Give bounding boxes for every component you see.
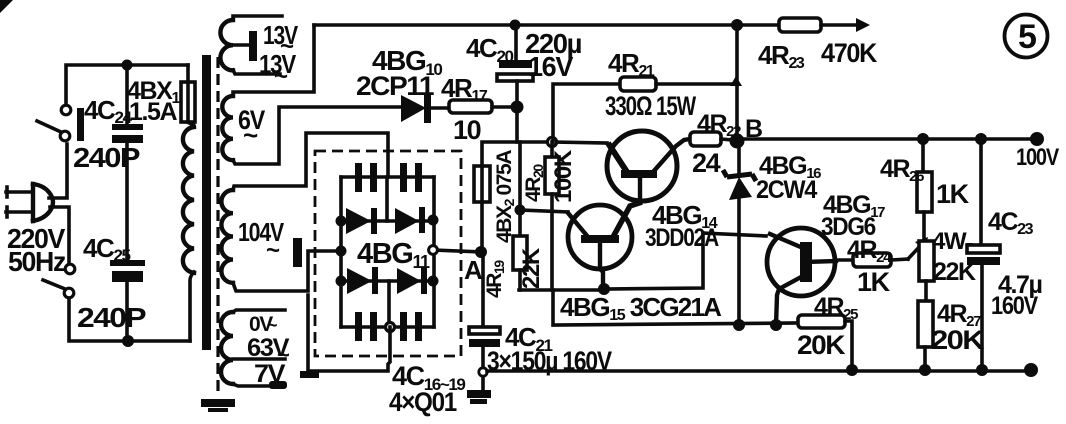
capacitor C17 [400, 163, 422, 192]
resistor R21 330ohm [553, 77, 737, 142]
svg-text:2CW4: 2CW4 [756, 176, 817, 204]
wire switch K1a to top wire [66, 65, 188, 105]
svg-text:22K: 22K [518, 247, 545, 289]
wire zener to BG17 collector and x703 [703, 233, 766, 236]
node B dot [730, 134, 745, 149]
potentiometer W5 [919, 241, 934, 281]
top rail [314, 23, 779, 27]
wire 0V tap [233, 310, 285, 312]
svg-text:10: 10 [453, 115, 481, 145]
diode D2 [395, 207, 425, 234]
resistor R25 [798, 315, 852, 370]
junction dots output rail [917, 133, 929, 145]
svg-text:330Ω 15W: 330Ω 15W [605, 91, 696, 121]
104V winding [221, 190, 233, 283]
diode D1 [346, 208, 377, 234]
svg-text:24: 24 [692, 148, 721, 178]
resistor R22 [690, 132, 733, 146]
wire y290 left [519, 288, 605, 292]
page number circled 5 [1005, 15, 1048, 58]
capacitor C19 [400, 312, 422, 341]
wire 7V tap [233, 381, 287, 389]
diode D3 [347, 267, 378, 294]
diode D4 [397, 267, 427, 294]
zener BG16 2CW4 [723, 141, 756, 326]
svg-text:1K: 1K [936, 179, 970, 209]
wire 104V top over-route to bridge top [233, 133, 388, 190]
diode BG10 2CP11 [401, 95, 449, 123]
ground symbol [467, 390, 491, 404]
capacitor C21 [469, 252, 500, 392]
capacitor C25 plates [110, 260, 145, 341]
transformer T primary winding [183, 122, 194, 273]
wire BG15 emitter to R19 dot [520, 210, 568, 212]
wire 63V tap [233, 357, 285, 361]
junction dots upper diode row [336, 216, 347, 227]
switch K1b [43, 264, 75, 298]
wire 6V top to top rail [233, 25, 314, 96]
transformer core dashed line [216, 57, 219, 396]
wire 104V bottom to bridge input [233, 251, 341, 291]
transformer core solid bar [202, 55, 211, 350]
svg-text:A: A [464, 255, 483, 285]
junction dots on y325 [733, 319, 745, 331]
bridge upper diode row wire [341, 219, 434, 223]
bridge dashed box [315, 151, 461, 356]
svg-text:2CP11: 2CP11 [356, 71, 434, 101]
13V winding [220, 20, 233, 70]
svg-text:4BG15 3CG21A: 4BG15 3CG21A [560, 292, 722, 324]
bridge right rail [432, 177, 436, 327]
mid vertical top [385, 177, 389, 221]
corner scan mark [0, 0, 13, 13]
wire switch K1b down to bottom left wire [69, 298, 190, 341]
capacitor C20 [497, 25, 533, 142]
svg-text:~: ~ [267, 315, 277, 335]
svg-text:~: ~ [274, 63, 288, 90]
transistor BG15 [568, 202, 642, 289]
svg-text:~: ~ [266, 237, 280, 264]
resistor R19 column [513, 142, 527, 290]
svg-text:240P: 240P [73, 142, 140, 173]
svg-text:16V: 16V [528, 51, 574, 82]
junction dots lower diode row [336, 276, 347, 287]
svg-text:~: ~ [243, 120, 258, 150]
output rail 100V [743, 137, 1037, 141]
AC plug P1 [6, 184, 53, 221]
junction circle bridge output [429, 246, 438, 255]
0V 6.3V 7V winding [221, 312, 233, 384]
svg-text:20K: 20K [797, 330, 846, 360]
capacitor C24 plates [112, 65, 143, 143]
svg-text:1K: 1K [857, 267, 891, 297]
junction dots bottom rail [846, 364, 858, 376]
bridge lower diode row wire [341, 279, 434, 283]
resistor R27 [918, 281, 933, 370]
bridge bottom cap row wire [341, 325, 434, 329]
wire 13V top stub [233, 16, 282, 20]
bridge ground route [300, 295, 390, 378]
resistor R17 [449, 100, 517, 113]
bridge top cap row wire [341, 175, 434, 179]
svg-text:100V: 100V [1016, 144, 1059, 171]
switch K1a [37, 105, 71, 141]
vertical x737 rail [735, 25, 739, 141]
junction dot bottom mid [386, 323, 395, 332]
junction dot 552,142 [547, 137, 556, 146]
13V center tap with terminal bar [233, 31, 257, 61]
svg-text:20K: 20K [931, 325, 985, 355]
capacitor C16 [355, 163, 377, 192]
svg-text:1.5A: 1.5A [129, 98, 178, 126]
core ground bar [201, 399, 235, 407]
small scan bar near switch [77, 108, 84, 141]
svg-text:4BX2 075A: 4BX2 075A [493, 150, 517, 243]
bottom rail [487, 369, 1031, 373]
svg-text:50Hz: 50Hz [8, 246, 65, 277]
wire y325 with R25 [553, 290, 798, 325]
svg-text:4×Q01: 4×Q01 [389, 387, 457, 417]
input terminal bar [293, 238, 302, 267]
svg-text:5: 5 [1018, 18, 1036, 56]
bridge left rail [339, 177, 343, 327]
wire 6V bottom to diode [233, 107, 403, 164]
svg-text:470K: 470K [821, 38, 878, 68]
resistor R24 [836, 237, 928, 267]
top rail resistor R23 [779, 18, 870, 32]
transistor BG17 [767, 228, 836, 326]
bridge output wire to node A [434, 250, 482, 252]
resistor R26 [917, 139, 932, 241]
junction dot C20 top [510, 20, 521, 31]
wire 13V bottom stub [233, 70, 280, 74]
junction dot bridge input [336, 246, 347, 257]
wire primary bottom [190, 272, 194, 341]
capacitor C23 [967, 139, 1000, 370]
svg-text:~: ~ [271, 370, 284, 395]
svg-text:240P: 240P [77, 302, 146, 333]
wire plug to switch K1a [49, 144, 67, 198]
svg-text:100K: 100K [550, 149, 577, 203]
junction dot [122, 60, 133, 71]
junction dot top rail x737 [731, 19, 743, 31]
fuse BX1 [181, 65, 195, 122]
wire x703 vertical [605, 233, 703, 289]
capacitor C18 [355, 312, 377, 341]
fuse BX2 on node A column [474, 142, 553, 252]
6V winding [222, 96, 233, 160]
junction triangle at right of R21 [730, 76, 742, 86]
wire C24 to C25 [125, 143, 129, 262]
wire raw rail to BG14 emitter [553, 142, 607, 143]
resistor R20 column [545, 142, 559, 290]
junction dot BG15 base [598, 283, 610, 295]
junction dot [122, 335, 134, 347]
svg-text:3DD02A: 3DD02A [645, 224, 719, 252]
junction dot R19/emitter [515, 205, 526, 216]
mid vertical bottom [387, 281, 391, 327]
wire plug to switch K1b [50, 207, 69, 264]
node A dot [475, 246, 487, 258]
svg-text:160V: 160V [991, 292, 1038, 320]
transistor BG14 [607, 131, 690, 201]
junction dot R17/C20 [511, 101, 524, 114]
